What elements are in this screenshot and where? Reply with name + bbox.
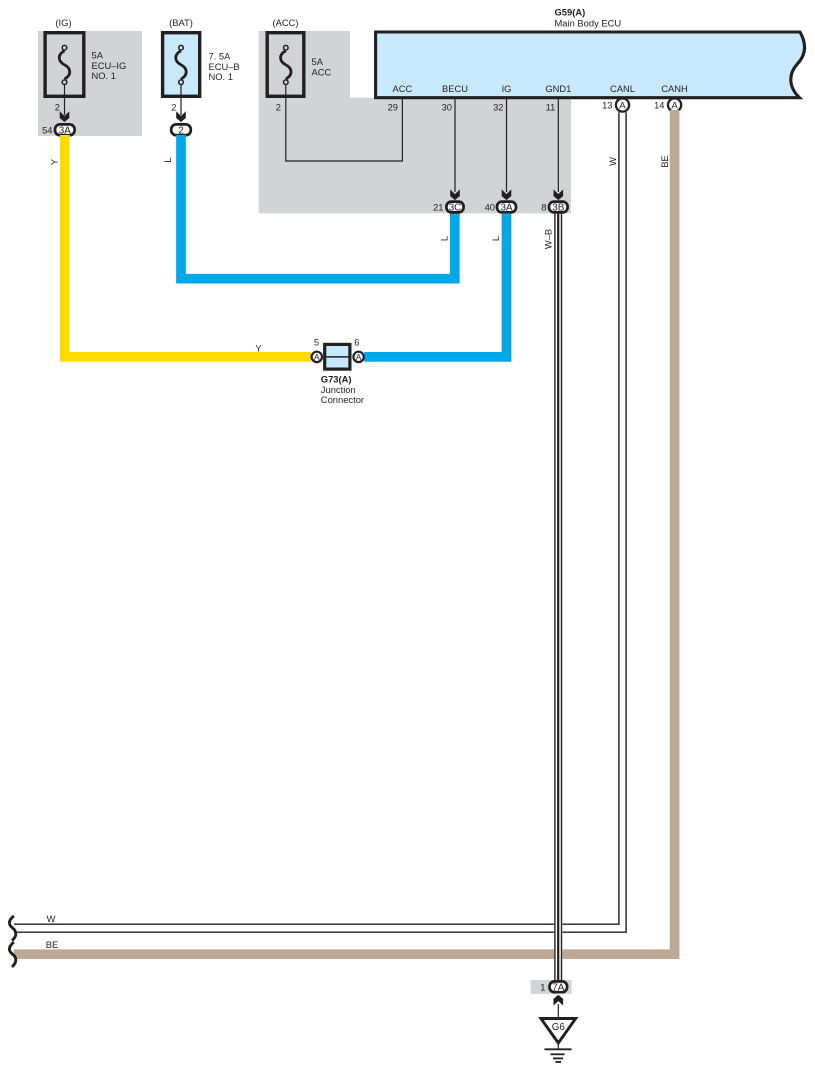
svg-text:5A: 5A bbox=[92, 51, 104, 61]
svg-text:Connector: Connector bbox=[321, 394, 364, 405]
svg-text:W–B: W–B bbox=[543, 229, 553, 249]
svg-text:2: 2 bbox=[276, 102, 281, 112]
svg-text:BECU: BECU bbox=[442, 84, 468, 94]
fuse (IG) value label 5A ECU-IG NO. 1 bbox=[92, 51, 127, 82]
wire color label W (horizontal) bbox=[47, 914, 56, 924]
ECU pin name BECU bbox=[442, 84, 468, 94]
junction connector name label bbox=[321, 373, 364, 404]
svg-text:5: 5 bbox=[314, 338, 319, 348]
wire color label BE (horizontal) bbox=[46, 940, 58, 950]
svg-text:A: A bbox=[314, 352, 320, 362]
svg-text:L: L bbox=[439, 236, 449, 241]
svg-text:11: 11 bbox=[546, 102, 556, 112]
svg-text:G6: G6 bbox=[552, 1022, 566, 1033]
yellow wire Y from 3A to junction connector bbox=[65, 135, 311, 357]
break symbol on W wire bbox=[9, 916, 15, 941]
svg-text:29: 29 bbox=[388, 102, 398, 112]
wire color label W-B (vertical) bbox=[543, 229, 553, 249]
svg-text:32: 32 bbox=[493, 102, 503, 112]
svg-text:3A: 3A bbox=[500, 203, 512, 214]
ground symbol bbox=[545, 1043, 572, 1062]
arrow into connector 3A bbox=[502, 189, 512, 200]
connector terminal 40 3A bbox=[485, 202, 516, 214]
wire from fuse (IG) pin 2 bbox=[64, 85, 66, 115]
CANL terminal circle 13 A bbox=[616, 98, 629, 111]
arrow into connector 3C bbox=[450, 189, 460, 200]
svg-text:G59(A): G59(A) bbox=[555, 6, 586, 17]
pin number 2 of BAT fuse bbox=[171, 102, 176, 112]
fuse (BAT) value label 7.5A ECU-B NO. 1 bbox=[209, 52, 240, 83]
arrow into connector 3B bbox=[554, 189, 564, 200]
pin number 2 of ACC fuse bbox=[276, 102, 281, 112]
pin number 32 bbox=[493, 102, 503, 112]
connector terminal 54 3A bbox=[42, 124, 75, 136]
svg-text:BE: BE bbox=[660, 155, 670, 167]
svg-text:2: 2 bbox=[178, 125, 184, 136]
connector terminal 21 3C bbox=[433, 202, 464, 214]
svg-text:30: 30 bbox=[442, 102, 452, 112]
svg-text:BE: BE bbox=[46, 940, 58, 950]
svg-text:CANH: CANH bbox=[661, 84, 687, 94]
svg-text:8: 8 bbox=[541, 203, 546, 213]
svg-text:(BAT): (BAT) bbox=[169, 17, 193, 28]
svg-text:5A: 5A bbox=[312, 57, 324, 67]
svg-text:54: 54 bbox=[42, 125, 52, 135]
fuse (BAT) body bbox=[163, 33, 200, 97]
wire from ACC fuse to ECU pin 29 bbox=[286, 85, 403, 161]
connector terminal 1 7A bbox=[540, 981, 567, 993]
svg-text:G73(A): G73(A) bbox=[321, 373, 352, 384]
junction terminal 6 A bbox=[353, 338, 363, 362]
svg-text:ECU–B: ECU–B bbox=[209, 62, 240, 72]
W-B wire from 3B to 7A (white wire with black stripe) bbox=[555, 214, 562, 981]
fuse (ACC) label bbox=[272, 17, 298, 28]
svg-text:NO. 1: NO. 1 bbox=[209, 72, 233, 82]
wire color label L (vertical, BAT) bbox=[163, 157, 173, 162]
CANH terminal circle 14 A bbox=[668, 98, 681, 111]
svg-text:7A: 7A bbox=[552, 982, 564, 993]
arrow into connector 2 bbox=[176, 111, 186, 122]
svg-text:ACC: ACC bbox=[312, 67, 332, 77]
pin number 14 bbox=[654, 101, 664, 111]
break symbol on BE wire bbox=[9, 942, 15, 967]
wire color label L (vertical, 3C) bbox=[439, 236, 449, 241]
svg-text:21: 21 bbox=[433, 203, 443, 213]
svg-text:A: A bbox=[671, 101, 678, 112]
ECU box G59(A) bbox=[376, 32, 805, 98]
blue wire L from BAT fuse to connector 3C bbox=[181, 135, 455, 279]
svg-text:A: A bbox=[356, 352, 362, 362]
svg-text:(IG): (IG) bbox=[55, 17, 71, 28]
fuse (BAT) label bbox=[169, 17, 193, 28]
pin number 29 bbox=[388, 102, 398, 112]
wire color label Y (vertical) bbox=[49, 158, 59, 165]
fuse (ACC) body bbox=[267, 33, 304, 97]
shaded background block for ACC fuse and ECU connector area bbox=[259, 31, 572, 213]
wire from ECU IG pin 32 bbox=[506, 98, 508, 192]
svg-text:3C: 3C bbox=[449, 203, 462, 214]
pin number 11 bbox=[546, 102, 556, 112]
ground point triangle G6 bbox=[541, 1019, 576, 1044]
wire color label W (vertical) bbox=[608, 157, 618, 166]
svg-text:W: W bbox=[608, 157, 618, 166]
ECU pin name CANL bbox=[610, 84, 635, 94]
blue wire L from junction connector to 3A bbox=[364, 214, 506, 357]
svg-text:2: 2 bbox=[171, 102, 176, 112]
shaded background block for IG fuse bbox=[38, 31, 142, 136]
svg-text:ACC: ACC bbox=[393, 84, 413, 94]
wire from ECU BECU pin 30 bbox=[454, 98, 456, 192]
pin number 2 of IG fuse bbox=[55, 102, 60, 112]
junction connector G73(A) bbox=[325, 344, 350, 369]
svg-text:ECU–IG: ECU–IG bbox=[92, 61, 127, 71]
svg-text:3A: 3A bbox=[59, 125, 71, 136]
fuse (ACC) value label 5A ACC bbox=[312, 57, 332, 77]
svg-text:40: 40 bbox=[485, 203, 495, 213]
wire color label BE (vertical) bbox=[660, 155, 670, 167]
svg-text:A: A bbox=[619, 101, 626, 112]
connector terminal 8 3B bbox=[541, 202, 567, 214]
connector terminal 2 bbox=[171, 124, 191, 136]
wire color label Y (horizontal near junction) bbox=[255, 343, 262, 353]
svg-text:2: 2 bbox=[55, 102, 60, 112]
white wire W from CANL down and across to left edge bbox=[14, 112, 626, 932]
fuse (IG) label bbox=[55, 17, 71, 28]
svg-text:(ACC): (ACC) bbox=[272, 17, 298, 28]
wire from fuse (BAT) pin 2 bbox=[180, 85, 182, 115]
svg-text:NO. 1: NO. 1 bbox=[92, 71, 116, 81]
wire color label L (vertical, 3A) bbox=[491, 236, 501, 241]
svg-text:14: 14 bbox=[654, 101, 664, 111]
svg-text:Main Body ECU: Main Body ECU bbox=[555, 17, 622, 28]
svg-text:7. 5A: 7. 5A bbox=[209, 52, 232, 62]
svg-text:1: 1 bbox=[540, 982, 545, 992]
beige wire BE from CANH down and across to left edge bbox=[14, 110, 675, 954]
shaded highlight for terminal 1 7A bbox=[531, 980, 572, 994]
arrow into connector 3A bbox=[60, 111, 70, 122]
svg-text:W: W bbox=[47, 914, 56, 924]
svg-text:Y: Y bbox=[49, 158, 59, 165]
svg-text:CANL: CANL bbox=[610, 84, 635, 94]
pin number 30 bbox=[442, 102, 452, 112]
ECU pin name GND1 bbox=[545, 84, 571, 94]
ECU pin name ACC bbox=[393, 84, 413, 94]
wire from ECU GND1 pin 11 bbox=[557, 98, 559, 192]
ECU pin name IG bbox=[502, 84, 512, 94]
fuse (IG) body bbox=[45, 33, 84, 97]
svg-text:IG: IG bbox=[502, 84, 512, 94]
ECU pin name CANH bbox=[661, 84, 687, 94]
arrow up into 7A bbox=[554, 995, 564, 1006]
svg-text:L: L bbox=[491, 236, 501, 241]
svg-text:3B: 3B bbox=[552, 203, 564, 214]
svg-text:GND1: GND1 bbox=[545, 84, 571, 94]
wire from arrow to ground triangle bbox=[557, 1004, 559, 1019]
junction terminal 5 A bbox=[312, 338, 322, 362]
svg-text:13: 13 bbox=[602, 101, 612, 111]
pin number 13 bbox=[602, 101, 612, 111]
label G59(A) Main Body ECU bbox=[555, 6, 622, 28]
svg-text:6: 6 bbox=[354, 338, 359, 348]
svg-text:L: L bbox=[163, 157, 173, 162]
svg-text:Y: Y bbox=[255, 343, 262, 353]
